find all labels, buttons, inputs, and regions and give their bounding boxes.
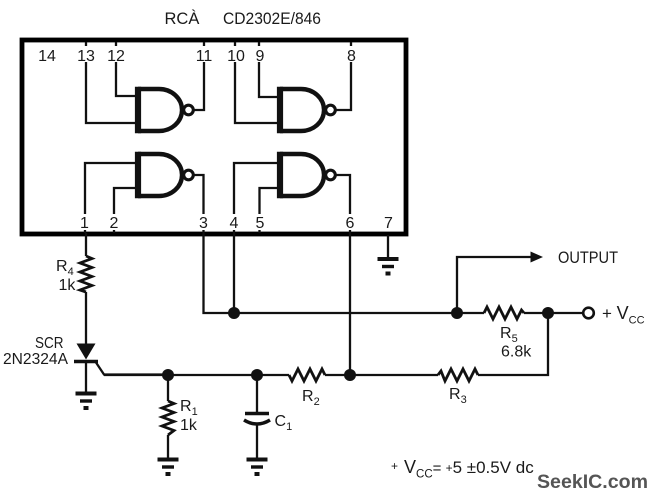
svg-text:OUTPUT: OUTPUT [558,249,618,267]
svg-text:10: 10 [227,48,245,65]
svg-text:SCR: SCR [35,335,64,352]
svg-text:8: 8 [347,48,356,65]
svg-text:1k: 1k [59,277,77,294]
svg-text:3: 3 [199,215,208,232]
svg-text:5: 5 [256,215,265,232]
svg-text:2N2324A: 2N2324A [3,351,68,368]
svg-text:14: 14 [38,48,56,65]
svg-text:4: 4 [230,215,239,232]
svg-text:+: + [391,459,398,473]
svg-text:6.8k: 6.8k [501,344,532,361]
svg-text:1k: 1k [180,417,198,434]
svg-text:12: 12 [107,48,125,65]
svg-text:2: 2 [110,215,119,232]
svg-text:11: 11 [196,48,213,65]
svg-text:7: 7 [384,215,393,232]
svg-text:CD2302E/846: CD2302E/846 [223,10,321,28]
svg-text:SeekIC.com: SeekIC.com [537,471,648,493]
svg-text:1: 1 [80,215,89,232]
svg-text:6: 6 [346,215,355,232]
svg-text:13: 13 [77,48,95,65]
svg-text:RCÀ: RCÀ [165,9,200,28]
svg-text:9: 9 [256,48,265,65]
